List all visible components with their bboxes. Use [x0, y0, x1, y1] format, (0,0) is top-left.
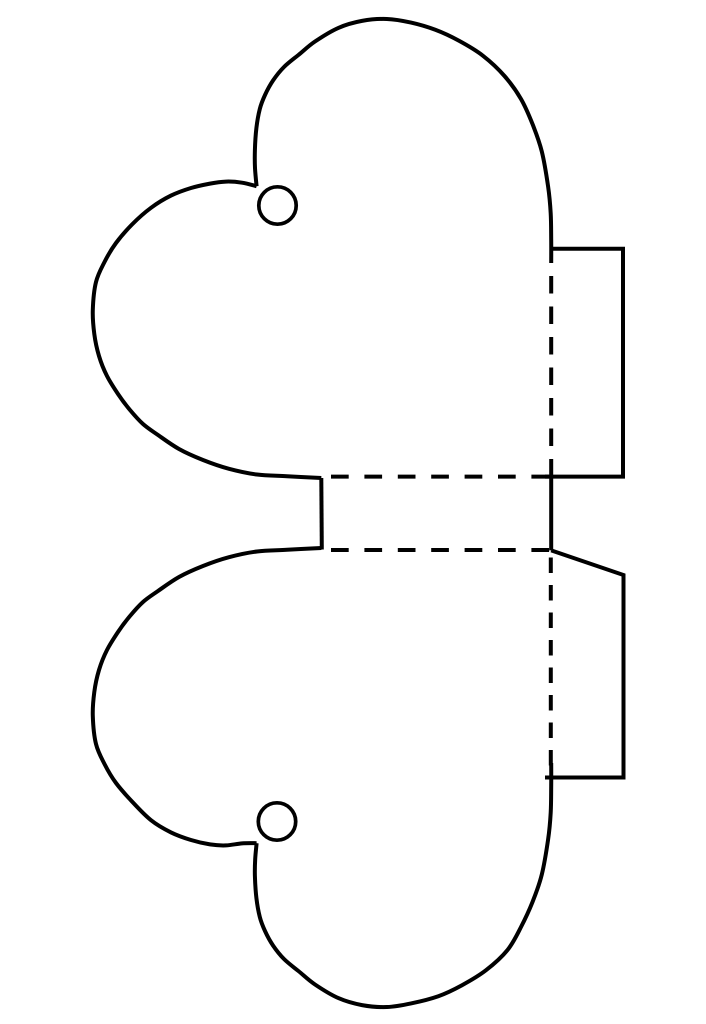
top heart hang hole: [259, 187, 296, 224]
top glue tab: [545, 249, 623, 477]
top heart left lobe outline: [93, 182, 322, 478]
bottom heart left lobe outline: [93, 548, 322, 845]
band left edge: [319, 478, 324, 550]
band top fold line (dashed): [331, 475, 550, 479]
bottom tab fold line (dashed): [549, 558, 553, 766]
band right edge: [549, 477, 553, 551]
bottom heart hang hole: [258, 803, 295, 840]
bottom glue tab: [545, 550, 624, 777]
top tab fold line (dashed): [549, 276, 553, 477]
band bottom fold line (dashed): [331, 548, 550, 552]
top heart right lobe outline: [255, 19, 551, 263]
bottom heart right lobe outline: [255, 763, 551, 1007]
